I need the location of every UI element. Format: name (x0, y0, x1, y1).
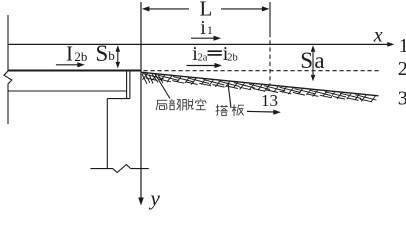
svg-text:3: 3 (398, 88, 406, 110)
svg-text:S: S (96, 41, 109, 66)
svg-text:2: 2 (398, 58, 406, 80)
abutment base line with break symbol (91, 165, 149, 173)
abutment ledge (107, 98, 130, 100)
dimension L left arrow (147, 8, 189, 10)
leader line for slab label (228, 83, 231, 108)
leader line for void label (155, 74, 170, 99)
dimension L right arrow (221, 8, 264, 10)
bridge deck top surface (thick) (8, 70, 142, 72)
expansion joint vertical 1 (126, 71, 128, 99)
svg-text:2a: 2a (198, 52, 208, 63)
svg-text:b: b (108, 48, 115, 63)
svg-text:I: I (66, 42, 73, 66)
y-axis line (140, 2, 142, 199)
svg-text:y: y (149, 186, 161, 210)
Sa double arrow (312, 47, 314, 79)
svg-text:a: a (314, 48, 324, 73)
svg-text:2b: 2b (74, 49, 87, 64)
Sb double arrow (117, 47, 119, 66)
svg-text:x: x (373, 24, 383, 46)
x-axis line (8, 43, 390, 45)
x-axis arrowhead (387, 42, 394, 47)
bridge deck bottom line (8, 90, 127, 92)
svg-text:1: 1 (207, 23, 213, 37)
svg-text:i: i (200, 17, 206, 39)
label daban (approach slab, drawn CJK) (216, 104, 217, 115)
arrow under i1 (191, 37, 216, 39)
dimension boundary right vertical (solid top) (269, 2, 271, 33)
dashed original road surface line (144, 70, 381, 72)
svg-text:1: 1 (399, 35, 406, 57)
expansion joint vertical 2 (129, 71, 131, 99)
label jubu tuokong (local void, drawn CJK) (157, 99, 167, 101)
svg-text:13: 13 (261, 91, 278, 110)
svg-text:S: S (300, 48, 313, 73)
dimension boundary right vertical (dashed lower) (269, 33, 271, 85)
left broken-edge vertical with break symbol (4, 15, 12, 124)
abutment front vertical (106, 99, 108, 169)
y-axis arrowhead (138, 198, 144, 206)
arrow under I2b (56, 64, 79, 66)
svg-text:2b: 2b (227, 52, 238, 63)
arrow under i2a=i2b (187, 65, 217, 67)
arrow under 13 (247, 110, 275, 113)
ground hatching below slope (142, 73, 376, 102)
settled approach slab surface (slope line) (142, 72, 379, 96)
